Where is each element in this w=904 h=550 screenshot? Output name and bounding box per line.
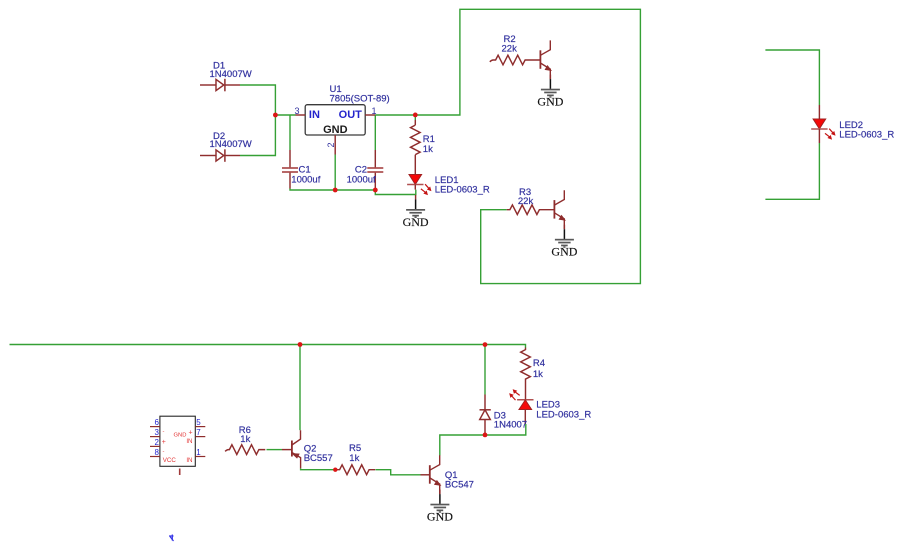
svg-text:1N4007W: 1N4007W [210, 69, 252, 80]
svg-text:22k: 22k [518, 196, 534, 207]
svg-text:GND: GND [323, 124, 348, 136]
svg-text:LED-0603_R: LED-0603_R [839, 129, 894, 140]
svg-text:22k: 22k [502, 44, 518, 55]
svg-text:1k: 1k [533, 369, 543, 380]
svg-text:1000uf: 1000uf [291, 175, 320, 186]
svg-text:OUT: OUT [339, 109, 363, 121]
svg-text:7: 7 [196, 428, 201, 437]
svg-text:VCC: VCC [163, 457, 177, 464]
svg-text:3: 3 [294, 106, 299, 116]
svg-text:-: - [163, 449, 165, 455]
svg-text:7805(SOT-89): 7805(SOT-89) [330, 93, 390, 104]
svg-text:1N4007: 1N4007 [494, 419, 527, 430]
svg-text:LED-0603_R: LED-0603_R [435, 184, 490, 195]
svg-text:2: 2 [155, 438, 160, 447]
svg-text:2: 2 [326, 142, 336, 147]
svg-text:+: + [189, 430, 193, 437]
svg-text:BC557: BC557 [304, 453, 333, 464]
svg-text:1k: 1k [349, 453, 359, 464]
svg-text:GND: GND [174, 433, 187, 439]
svg-text:R4: R4 [533, 358, 545, 369]
svg-text:LED-0603_R: LED-0603_R [536, 410, 591, 421]
svg-text:+: + [162, 439, 166, 446]
svg-text:IN: IN [309, 109, 320, 121]
svg-text:8: 8 [155, 448, 160, 457]
svg-text:1N4007W: 1N4007W [210, 139, 252, 150]
svg-text:5: 5 [196, 418, 201, 427]
svg-text:IN: IN [186, 438, 192, 445]
svg-text:1k: 1k [240, 434, 250, 445]
svg-text:BC547: BC547 [445, 480, 474, 491]
svg-text:1: 1 [372, 106, 377, 116]
svg-text:3: 3 [155, 428, 160, 437]
svg-text:-: - [163, 429, 165, 435]
svg-text:1: 1 [196, 448, 201, 457]
svg-text:1k: 1k [423, 144, 433, 155]
svg-text:6: 6 [155, 418, 160, 427]
svg-text:IN: IN [186, 457, 192, 464]
svg-text:1000uf: 1000uf [347, 175, 376, 186]
